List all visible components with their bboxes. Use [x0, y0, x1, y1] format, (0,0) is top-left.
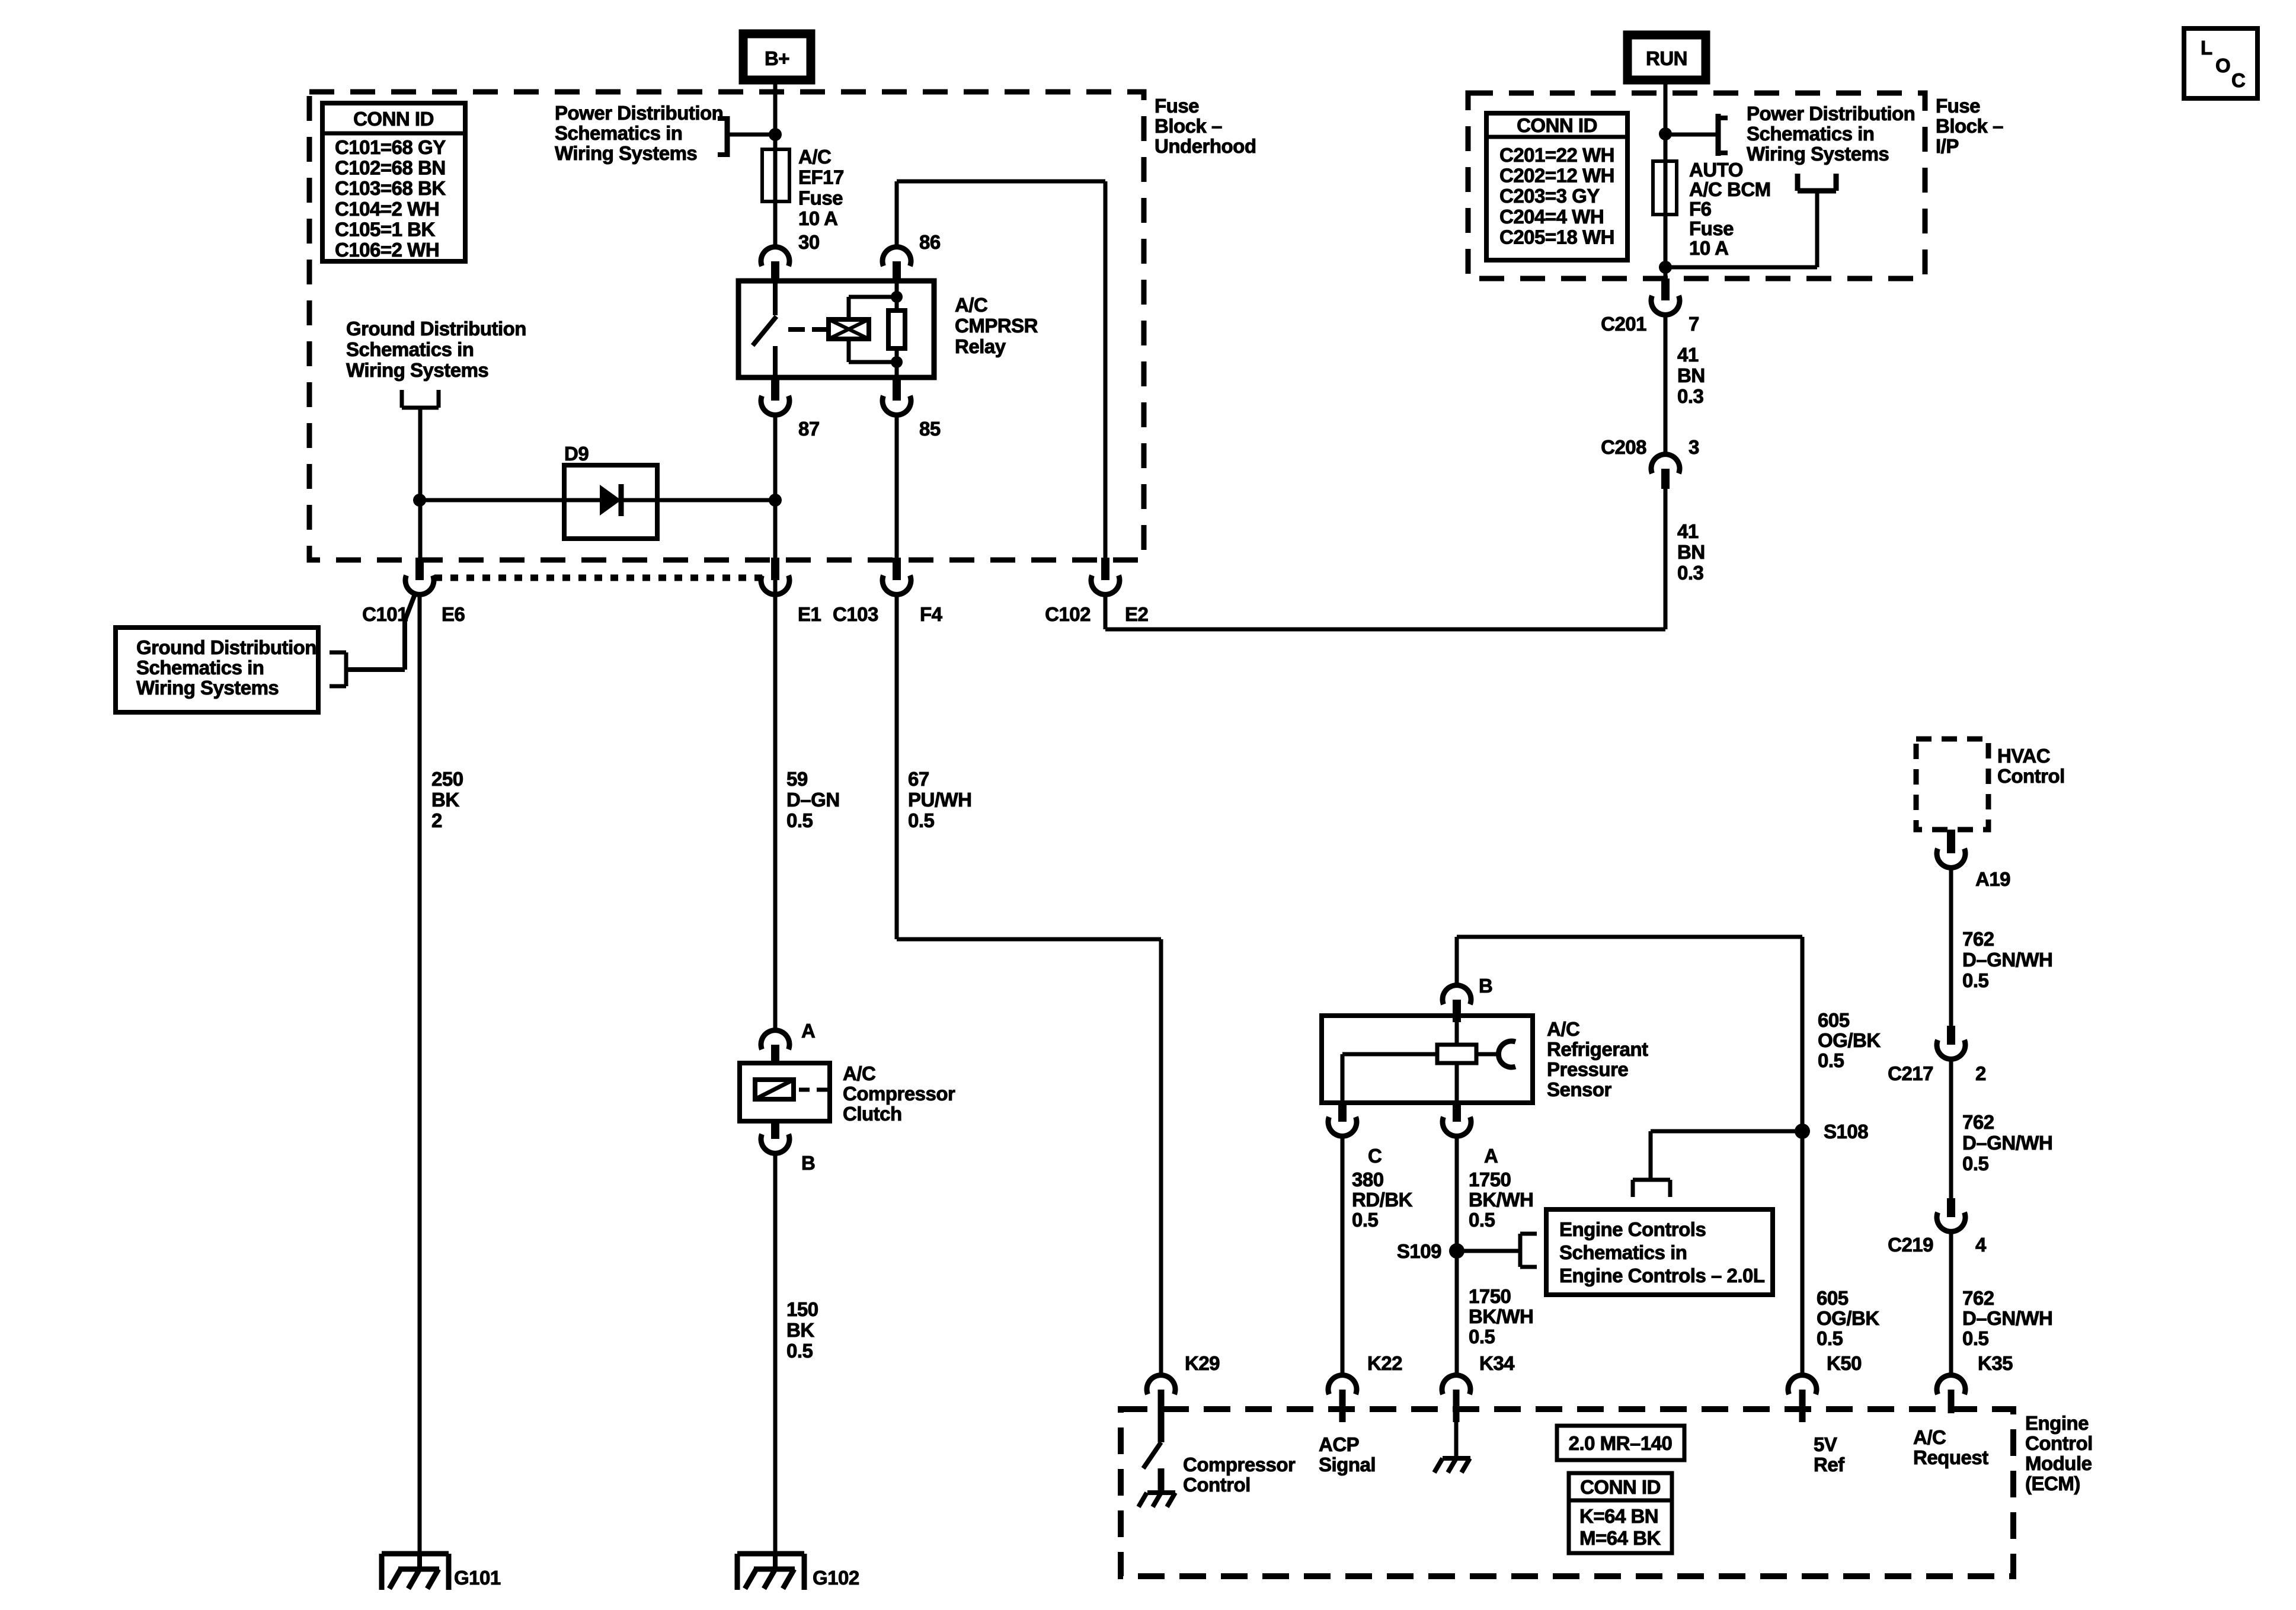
svg-text:0.3: 0.3 [1677, 385, 1704, 407]
svg-text:C101=68 GY: C101=68 GY [335, 136, 446, 158]
svg-text:I/P: I/P [1936, 135, 1959, 157]
svg-text:C104=2 WH: C104=2 WH [335, 198, 439, 220]
svg-text:ACP: ACP [1319, 1433, 1359, 1455]
svg-text:AUTO: AUTO [1689, 159, 1743, 181]
svg-text:Power Distribution: Power Distribution [1747, 103, 1915, 124]
svg-text:B: B [1479, 975, 1492, 997]
svg-text:A/C: A/C [843, 1062, 875, 1084]
svg-text:Ground Distribution: Ground Distribution [136, 636, 316, 658]
svg-text:RD/BK: RD/BK [1352, 1189, 1413, 1211]
svg-text:D–GN/WH: D–GN/WH [1962, 1132, 2052, 1154]
svg-text:Fuse: Fuse [1155, 95, 1199, 117]
svg-text:CONN ID: CONN ID [1517, 114, 1597, 136]
svg-text:B: B [801, 1152, 815, 1174]
svg-text:K35: K35 [1978, 1352, 2013, 1374]
svg-text:Engine: Engine [2025, 1412, 2089, 1434]
svg-text:7: 7 [1689, 313, 1699, 335]
svg-text:0.5: 0.5 [786, 1340, 813, 1362]
svg-text:RUN: RUN [1646, 47, 1687, 69]
svg-text:67: 67 [908, 768, 929, 790]
svg-text:Compressor: Compressor [1183, 1454, 1296, 1475]
svg-text:Power Distribution: Power Distribution [555, 102, 723, 124]
svg-text:BK: BK [431, 789, 459, 811]
svg-text:Block –: Block – [1155, 115, 1222, 137]
svg-text:C102: C102 [1045, 603, 1091, 625]
svg-text:C101: C101 [362, 603, 408, 625]
svg-text:F4: F4 [920, 603, 943, 625]
svg-text:Fuse: Fuse [1936, 95, 1980, 117]
svg-text:C105=1 BK: C105=1 BK [335, 218, 436, 240]
svg-text:Fuse: Fuse [798, 187, 843, 209]
svg-text:C205=18 WH: C205=18 WH [1499, 226, 1614, 248]
svg-text:HVAC: HVAC [1997, 745, 2050, 767]
svg-text:C103: C103 [833, 603, 878, 625]
svg-text:A/C: A/C [1913, 1426, 1946, 1448]
svg-text:Ref: Ref [1814, 1454, 1845, 1475]
svg-text:5V: 5V [1814, 1433, 1837, 1455]
svg-text:CONN ID: CONN ID [353, 108, 434, 130]
svg-text:D–GN/WH: D–GN/WH [1962, 949, 2052, 971]
svg-text:M=64 BK: M=64 BK [1579, 1527, 1661, 1549]
svg-text:Schematics in: Schematics in [1559, 1241, 1687, 1263]
svg-text:Schematics in: Schematics in [136, 657, 264, 678]
svg-text:K34: K34 [1479, 1352, 1515, 1374]
svg-text:762: 762 [1962, 1111, 1994, 1133]
svg-text:D9: D9 [564, 443, 589, 465]
svg-text:380: 380 [1352, 1169, 1384, 1190]
svg-text:Underhood: Underhood [1155, 135, 1256, 157]
svg-text:0.5: 0.5 [786, 809, 813, 831]
svg-text:0.5: 0.5 [908, 809, 935, 831]
svg-text:C201=22 WH: C201=22 WH [1499, 144, 1614, 166]
svg-text:1750: 1750 [1469, 1285, 1511, 1307]
svg-text:762: 762 [1962, 1287, 1994, 1309]
svg-text:C202=12 WH: C202=12 WH [1499, 165, 1614, 187]
svg-text:BK/WH: BK/WH [1469, 1189, 1533, 1211]
svg-text:B+: B+ [765, 47, 789, 69]
svg-text:Control: Control [2025, 1432, 2093, 1454]
svg-text:Module: Module [2025, 1452, 2092, 1474]
svg-text:605: 605 [1817, 1287, 1849, 1309]
svg-text:0.5: 0.5 [1469, 1209, 1495, 1231]
svg-text:3: 3 [1689, 436, 1699, 458]
svg-text:4: 4 [1975, 1234, 1987, 1256]
svg-text:0.5: 0.5 [1818, 1049, 1844, 1071]
svg-text:C208: C208 [1601, 436, 1646, 458]
svg-text:0.3: 0.3 [1677, 562, 1704, 584]
svg-text:OG/BK: OG/BK [1817, 1307, 1879, 1329]
svg-text:Request: Request [1913, 1446, 1988, 1468]
svg-text:A: A [801, 1020, 815, 1042]
svg-text:Control: Control [1183, 1474, 1251, 1496]
svg-text:Schematics in: Schematics in [1747, 123, 1874, 145]
svg-text:0.5: 0.5 [1962, 969, 1989, 991]
svg-text:C: C [1368, 1145, 1382, 1167]
svg-text:C: C [2231, 69, 2245, 91]
svg-text:C102=68 BN: C102=68 BN [335, 157, 446, 179]
svg-text:41: 41 [1677, 344, 1699, 366]
svg-text:K50: K50 [1827, 1352, 1862, 1374]
svg-text:Engine Controls – 2.0L: Engine Controls – 2.0L [1559, 1265, 1765, 1286]
svg-text:G102: G102 [813, 1567, 859, 1589]
svg-text:0.5: 0.5 [1352, 1209, 1379, 1231]
svg-text:BK: BK [786, 1319, 814, 1341]
svg-text:Pressure: Pressure [1547, 1058, 1628, 1080]
svg-text:10 A: 10 A [798, 207, 837, 229]
svg-text:Compressor: Compressor [843, 1083, 955, 1105]
svg-text:A/C BCM: A/C BCM [1689, 178, 1771, 200]
svg-text:150: 150 [786, 1298, 818, 1320]
svg-text:K29: K29 [1185, 1352, 1220, 1374]
svg-text:2: 2 [431, 809, 442, 831]
svg-text:0.5: 0.5 [1962, 1153, 1989, 1174]
svg-text:2.0 MR–140: 2.0 MR–140 [1569, 1432, 1673, 1454]
svg-text:K=64 BN: K=64 BN [1579, 1505, 1658, 1527]
svg-text:Ground Distribution: Ground Distribution [346, 318, 526, 340]
svg-text:Wiring Systems: Wiring Systems [346, 359, 488, 381]
svg-text:K22: K22 [1367, 1352, 1402, 1374]
svg-text:D–GN/WH: D–GN/WH [1962, 1307, 2052, 1329]
svg-text:C204=4 WH: C204=4 WH [1499, 206, 1604, 228]
svg-text:A/C: A/C [1547, 1018, 1579, 1040]
svg-text:C103=68 BK: C103=68 BK [335, 177, 446, 199]
svg-text:Sensor: Sensor [1547, 1078, 1612, 1100]
svg-text:Control: Control [1997, 765, 2065, 787]
svg-text:PU/WH: PU/WH [908, 789, 972, 811]
svg-text:BN: BN [1677, 364, 1705, 386]
svg-text:Schematics in: Schematics in [555, 122, 682, 144]
svg-text:BK/WH: BK/WH [1469, 1305, 1533, 1327]
svg-text:A19: A19 [1975, 868, 2010, 890]
svg-text:250: 250 [431, 768, 463, 790]
svg-text:L: L [2201, 37, 2212, 59]
svg-text:G101: G101 [454, 1567, 501, 1589]
svg-text:Schematics in: Schematics in [346, 338, 474, 360]
svg-text:S109: S109 [1397, 1240, 1441, 1262]
svg-text:E2: E2 [1125, 603, 1149, 625]
svg-text:BN: BN [1677, 541, 1705, 563]
svg-text:A/C: A/C [798, 146, 831, 168]
svg-text:S108: S108 [1824, 1121, 1868, 1142]
svg-text:(ECM): (ECM) [2025, 1473, 2080, 1494]
svg-text:Relay: Relay [955, 335, 1006, 357]
svg-text:Refrigerant: Refrigerant [1547, 1038, 1648, 1060]
svg-text:86: 86 [919, 231, 941, 253]
svg-text:C217: C217 [1888, 1062, 1933, 1084]
svg-text:Clutch: Clutch [843, 1103, 902, 1125]
svg-text:10 A: 10 A [1689, 237, 1728, 259]
svg-text:Block –: Block – [1936, 115, 2003, 137]
svg-text:EF17: EF17 [798, 167, 844, 188]
svg-text:CONN ID: CONN ID [1580, 1476, 1661, 1498]
svg-text:85: 85 [919, 418, 941, 440]
svg-text:0.5: 0.5 [1962, 1327, 1989, 1349]
svg-text:OG/BK: OG/BK [1818, 1029, 1881, 1051]
svg-text:C106=2 WH: C106=2 WH [335, 239, 439, 261]
svg-text:Wiring Systems: Wiring Systems [555, 142, 697, 164]
svg-text:A: A [1484, 1145, 1498, 1167]
svg-text:O: O [2215, 55, 2230, 76]
svg-text:E6: E6 [442, 603, 465, 625]
svg-text:0.5: 0.5 [1469, 1326, 1495, 1347]
svg-text:59: 59 [786, 768, 808, 790]
svg-text:C201: C201 [1601, 313, 1646, 335]
svg-text:E1: E1 [798, 603, 821, 625]
svg-text:762: 762 [1962, 928, 1994, 950]
svg-text:D–GN: D–GN [786, 789, 840, 811]
svg-text:Engine Controls: Engine Controls [1559, 1218, 1706, 1240]
svg-text:F6: F6 [1689, 198, 1712, 220]
svg-text:Wiring Systems: Wiring Systems [1747, 143, 1889, 165]
svg-text:87: 87 [798, 418, 820, 440]
svg-text:2: 2 [1975, 1062, 1986, 1084]
svg-text:CMPRSR: CMPRSR [955, 315, 1038, 337]
svg-text:C203=3 GY: C203=3 GY [1499, 185, 1600, 207]
svg-text:A/C: A/C [955, 294, 987, 316]
svg-text:Fuse: Fuse [1689, 217, 1734, 239]
svg-text:30: 30 [798, 231, 820, 253]
svg-text:605: 605 [1818, 1009, 1850, 1031]
svg-text:Wiring Systems: Wiring Systems [136, 677, 279, 699]
svg-text:C219: C219 [1888, 1234, 1933, 1256]
svg-text:1750: 1750 [1469, 1169, 1511, 1190]
svg-text:Signal: Signal [1319, 1454, 1376, 1475]
svg-text:0.5: 0.5 [1817, 1327, 1843, 1349]
svg-text:41: 41 [1677, 520, 1699, 542]
